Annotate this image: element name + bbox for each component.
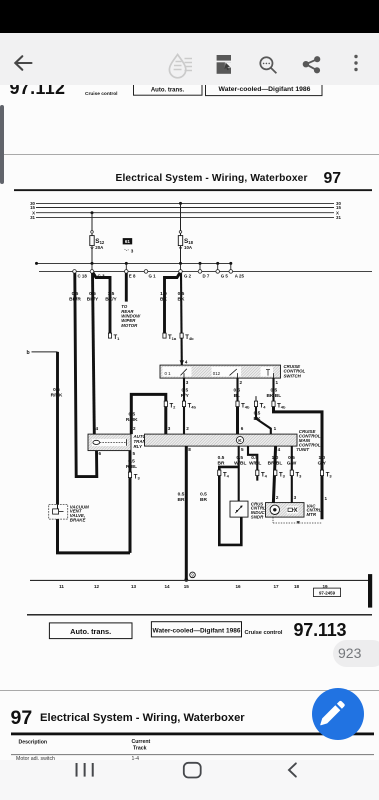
connector T4 on W/BL stub xyxy=(256,470,259,476)
inductive sender label xyxy=(251,502,266,520)
ground rail xyxy=(30,580,372,582)
connector G1 xyxy=(144,270,148,274)
svg-text:b: b xyxy=(27,350,30,356)
svg-text:0.5: 0.5 xyxy=(218,455,225,461)
connector C18 xyxy=(73,270,77,274)
terminal circle above S12 xyxy=(91,231,94,234)
svg-text:15: 15 xyxy=(184,584,190,589)
scrollbar xyxy=(0,105,4,184)
connector T4b upper xyxy=(180,333,183,338)
svg-text:W/BL: W/BL xyxy=(234,461,246,467)
switch pin 4 label xyxy=(180,361,184,366)
svg-text:4: 4 xyxy=(96,426,99,431)
wire 0.5 W/BL stub via T4 xyxy=(248,446,257,481)
svg-text:G/W: G/W xyxy=(287,461,297,467)
svg-text:T1: T1 xyxy=(114,335,121,341)
cruise control main control unit box xyxy=(145,434,298,446)
connector T4b on BK/BL xyxy=(272,401,275,407)
svg-text:T2: T2 xyxy=(170,404,177,410)
svg-text:0.5: 0.5 xyxy=(181,388,188,394)
wire 0.5 BK/BL switch pin1 to T4b then to G/Y run xyxy=(272,378,274,403)
svg-text:31: 31 xyxy=(336,216,341,221)
toolbar xyxy=(0,33,379,85)
svg-text:BK/Y: BK/Y xyxy=(87,297,99,303)
connector T3 on G/Y xyxy=(320,470,323,476)
connector E8 xyxy=(125,270,129,274)
svg-text:1.0: 1.0 xyxy=(272,455,279,461)
svg-text:0 1: 0 1 xyxy=(165,371,172,376)
ink annotation icon (disabled) xyxy=(169,55,192,78)
svg-text:3: 3 xyxy=(294,496,297,501)
svg-text:R/BL: R/BL xyxy=(126,464,137,470)
wire 1.0 BR/BL control unit pin4 to vac motor xyxy=(273,446,275,503)
auto trans relay box xyxy=(88,434,131,451)
junction feed/G5 xyxy=(216,262,219,265)
svg-text:14: 14 xyxy=(164,584,170,589)
svg-text:10A: 10A xyxy=(184,245,193,250)
next page top fragment xyxy=(0,691,379,760)
svg-text:A 25: A 25 xyxy=(235,274,245,279)
wire 0.5 W/BL control unit pin5 to inductive sender xyxy=(238,446,240,501)
svg-text:BR/BL: BR/BL xyxy=(268,461,283,467)
svg-text:97.113: 97.113 xyxy=(294,620,347,640)
svg-text:0.5: 0.5 xyxy=(251,455,258,461)
svg-text:G 1: G 1 xyxy=(149,274,157,279)
stub feed to D7 xyxy=(199,264,201,272)
svg-text:BK/Y: BK/Y xyxy=(105,297,117,303)
svg-text:K: K xyxy=(238,439,242,445)
svg-text:Electrical System - Wiring, Wa: Electrical System - Wiring, Waterboxer xyxy=(116,173,308,184)
svg-text:2: 2 xyxy=(276,496,279,501)
svg-text:G/Y: G/Y xyxy=(318,461,327,467)
svg-text:0.5: 0.5 xyxy=(236,455,243,461)
svg-text:T4: T4 xyxy=(261,473,268,479)
auto trans relay label xyxy=(133,435,149,450)
svg-text:W/BL: W/BL xyxy=(249,461,261,467)
wire 0.5 G/W control unit pin7 to vac motor xyxy=(291,446,293,503)
pencil xyxy=(320,700,344,724)
svg-text:0.5: 0.5 xyxy=(200,492,207,498)
wire bus X to fuse S12 xyxy=(91,213,93,264)
svg-text:1.0: 1.0 xyxy=(160,291,167,297)
cruise control switch box xyxy=(160,365,281,378)
svg-text:97-2459: 97-2459 xyxy=(319,591,336,596)
stub feed to A25 xyxy=(230,264,232,272)
wire 0.5 BK/Y from G3 to relay xyxy=(93,273,95,434)
cruise control inductive sender box xyxy=(230,501,248,517)
svg-text:Cruise control: Cruise control xyxy=(245,630,283,636)
share icon xyxy=(303,57,320,73)
svg-text:BR: BR xyxy=(178,497,185,503)
svg-text:3: 3 xyxy=(131,249,134,254)
svg-text:11: 11 xyxy=(59,584,64,589)
vacuum vent valve box xyxy=(49,505,68,519)
svg-text:BK: BK xyxy=(254,416,261,422)
svg-text:T4: T4 xyxy=(223,473,230,479)
page edge mark xyxy=(368,574,372,608)
svg-text:Current: Current xyxy=(132,739,151,745)
svg-text:G 5: G 5 xyxy=(221,274,229,279)
svg-text:1: 1 xyxy=(325,497,328,502)
svg-text:7: 7 xyxy=(296,448,299,453)
svg-text:T3: T3 xyxy=(296,473,303,479)
wire 0.5 R/Y switch pin3 to T4b to control unit pin 2 xyxy=(183,378,185,434)
connector T4 stub xyxy=(255,396,257,401)
svg-text:BR: BR xyxy=(200,497,207,503)
junction S18/feed xyxy=(179,262,182,265)
svg-text:SWITCH: SWITCH xyxy=(284,374,302,379)
svg-text:0.5: 0.5 xyxy=(178,291,185,297)
svg-text:4: 4 xyxy=(185,360,188,365)
svg-text:Auto. trans.: Auto. trans. xyxy=(151,88,185,94)
svg-text:BRAKE: BRAKE xyxy=(70,518,87,523)
svg-text:97: 97 xyxy=(324,170,342,187)
connector T3 on BR/BL xyxy=(274,470,277,476)
page header title xyxy=(116,170,342,187)
svg-text:0.5: 0.5 xyxy=(72,291,79,297)
fuse S12 20A xyxy=(90,236,94,246)
cruise control switch label xyxy=(284,364,306,379)
svg-text:97.112: 97.112 xyxy=(10,85,66,98)
bus X xyxy=(36,212,334,214)
home button xyxy=(184,763,201,778)
diagram number box 97-2459 xyxy=(314,588,341,597)
feed line from fuses xyxy=(37,263,231,265)
vacuum control motor box xyxy=(266,503,305,517)
connector G2 xyxy=(179,270,183,274)
svg-text:Water-cooled—Digifant 1986: Water-cooled—Digifant 1986 xyxy=(153,628,241,635)
svg-text:0.5: 0.5 xyxy=(128,459,135,465)
wire 1.0 BK from G2 to T1a xyxy=(165,273,181,333)
svg-text:BK: BK xyxy=(178,297,185,303)
connector T1a xyxy=(163,333,166,338)
junction S12/feed xyxy=(91,262,94,265)
svg-text:3: 3 xyxy=(168,426,171,431)
connector T4 on BR loop xyxy=(218,470,221,476)
stub feed to G5 xyxy=(217,264,219,272)
svg-text:BR: BR xyxy=(218,461,225,467)
page reflow icon xyxy=(217,55,231,74)
footer box water-cooled xyxy=(151,622,241,637)
svg-text:0.5: 0.5 xyxy=(89,291,96,297)
svg-text:MTR: MTR xyxy=(307,512,317,517)
junction on bus X xyxy=(91,212,94,215)
svg-text:6: 6 xyxy=(99,452,102,457)
svg-text:61: 61 xyxy=(125,240,131,245)
connector T4b on R/Y xyxy=(182,401,185,407)
recents button xyxy=(76,763,94,777)
svg-text:31: 31 xyxy=(30,216,35,221)
svg-text:13: 13 xyxy=(131,584,137,589)
svg-text:5: 5 xyxy=(241,448,244,453)
page number chip xyxy=(333,640,379,668)
svg-text:BK/R: BK/R xyxy=(69,297,81,303)
connector T2 xyxy=(164,401,167,407)
svg-text:T4: T4 xyxy=(260,404,267,410)
svg-text:Description: Description xyxy=(19,740,48,746)
connector T1 xyxy=(108,333,111,338)
svg-text:0.5: 0.5 xyxy=(128,412,135,418)
svg-text:5: 5 xyxy=(133,452,136,457)
cruise control main control unit label xyxy=(299,429,322,452)
wire 0.5 BR control unit pin8 to ground rail xyxy=(185,446,188,580)
svg-text:1: 1 xyxy=(276,380,279,385)
bus labels left xyxy=(30,201,35,220)
svg-text:D 7: D 7 xyxy=(203,274,210,279)
svg-text:3: 3 xyxy=(186,380,189,385)
svg-text:BK/BL: BK/BL xyxy=(266,393,281,399)
status bar xyxy=(0,0,379,33)
page separator 2 xyxy=(0,690,379,692)
svg-text:BL: BL xyxy=(234,393,240,399)
mechanical linkage dashes xyxy=(273,517,322,523)
wire 1.5 BK/Y from G3 to T1 xyxy=(93,273,110,333)
svg-text:0.5: 0.5 xyxy=(178,492,185,498)
svg-text:BK: BK xyxy=(160,297,167,303)
svg-text:2: 2 xyxy=(133,426,136,431)
junction on bus 30 xyxy=(179,202,182,205)
back button xyxy=(289,764,296,777)
svg-text:T4b: T4b xyxy=(241,404,250,410)
wire 0.5 R/BK from b to vacuum vent valve xyxy=(56,352,59,505)
svg-text:RLY: RLY xyxy=(134,444,144,449)
connector T3 on R/BL xyxy=(128,472,131,478)
connector D7 xyxy=(198,270,202,274)
wire 0.5 BK from G2 through T4b to switch pin 4 xyxy=(180,273,183,365)
svg-text:E 8: E 8 xyxy=(129,274,136,279)
wire 0.5 BK/R from C18 xyxy=(75,273,97,477)
stub S18 to G2 xyxy=(180,264,182,272)
svg-text:0.5: 0.5 xyxy=(288,455,295,461)
svg-text:16: 16 xyxy=(235,584,241,589)
svg-text:Water-cooled—Digifant 1986: Water-cooled—Digifant 1986 xyxy=(219,86,311,93)
vacuum vent valve label xyxy=(70,505,89,523)
svg-text:MOTOR: MOTOR xyxy=(121,323,138,328)
svg-text:97: 97 xyxy=(11,707,33,729)
svg-text:2: 2 xyxy=(240,380,243,385)
svg-text:1.0: 1.0 xyxy=(318,455,325,461)
svg-text:12: 12 xyxy=(94,584,100,589)
svg-text:R/BK: R/BK xyxy=(51,393,63,399)
svg-text:17: 17 xyxy=(273,584,279,589)
connector T4b on BL xyxy=(236,401,239,407)
overflow menu icon xyxy=(354,55,357,71)
bus 30 xyxy=(36,203,334,205)
previous page bottom fragment xyxy=(0,85,379,154)
svg-text:Track: Track xyxy=(133,746,147,752)
connector T3 on G/W xyxy=(290,470,293,476)
svg-text:T1a: T1a xyxy=(168,335,177,341)
svg-text:UNIT: UNIT xyxy=(299,447,310,452)
svg-text:20A: 20A xyxy=(95,245,104,250)
stub feed to E8 xyxy=(125,264,127,272)
footer rule xyxy=(27,614,372,615)
header rule xyxy=(14,190,372,192)
bus labels right xyxy=(336,201,341,220)
fuse S18 10A xyxy=(178,236,182,246)
junction feed/E8 xyxy=(125,262,128,265)
svg-text:SNDR: SNDR xyxy=(251,515,264,520)
svg-text:012: 012 xyxy=(213,371,221,376)
svg-text:C 18: C 18 xyxy=(78,274,88,279)
track numbers xyxy=(59,584,328,589)
svg-text:R/Y: R/Y xyxy=(181,393,190,399)
svg-text:T3: T3 xyxy=(134,475,141,481)
stub S12 to G3 xyxy=(91,264,93,272)
svg-text:T4b: T4b xyxy=(188,404,197,410)
svg-text:T4b: T4b xyxy=(185,335,194,341)
svg-text:Auto. trans.: Auto. trans. xyxy=(70,627,111,636)
svg-text:G 2: G 2 xyxy=(184,274,192,279)
relay plate position box 61 xyxy=(123,238,133,244)
main diagram page 97.113 xyxy=(0,155,379,689)
footer box auto trans xyxy=(49,623,132,639)
connector A25 xyxy=(229,270,233,274)
connector G3 xyxy=(90,270,94,274)
svg-text:18: 18 xyxy=(294,584,300,589)
page separator 1 xyxy=(0,154,379,155)
svg-text:0.5: 0.5 xyxy=(53,387,60,393)
svg-text:2: 2 xyxy=(186,426,189,431)
wire 0.5 BK T4 to control unit pin 1 xyxy=(256,407,271,435)
svg-text:Cruise control: Cruise control xyxy=(85,91,118,97)
back arrow xyxy=(15,56,31,70)
svg-text:6: 6 xyxy=(241,426,244,431)
wire 0.5 BR sender loop via T4 xyxy=(219,467,241,545)
connector G5 xyxy=(216,270,220,274)
svg-text:T3: T3 xyxy=(326,473,333,479)
svg-text:0.5: 0.5 xyxy=(233,388,240,394)
wire to rear window wiper motor from E8 xyxy=(125,273,128,302)
svg-text:1.5: 1.5 xyxy=(108,291,115,297)
bus 31 xyxy=(36,217,334,219)
terminal circle above S18 xyxy=(179,231,182,234)
FAB edit button xyxy=(311,687,365,741)
wire 0.5 R/BL relay pin5 via T3 down xyxy=(129,451,132,553)
thick U wire control unit pin3 via T2 to relay pin2 xyxy=(131,395,166,435)
svg-text:0.5: 0.5 xyxy=(254,411,261,417)
search icon xyxy=(260,57,276,73)
vac control motor label xyxy=(307,504,322,518)
connector strip line xyxy=(39,271,372,273)
svg-text:T3: T3 xyxy=(279,473,286,479)
wire bus 30 to fuse S18 xyxy=(180,204,182,264)
svg-text:Electrical System - Wiring, Wa: Electrical System - Wiring, Waterboxer xyxy=(40,712,245,724)
svg-text:1: 1 xyxy=(274,426,277,431)
feed line terminal dot xyxy=(35,262,38,265)
wire 0.5 BL switch pin2 to T4b to control unit pin 6 xyxy=(236,378,238,407)
bottom navigation bar xyxy=(0,760,379,800)
svg-text:T4b: T4b xyxy=(277,404,286,410)
junction feed/D7 xyxy=(199,262,202,265)
wire valve to relay pin5 run xyxy=(58,519,131,553)
svg-text:0.5: 0.5 xyxy=(270,388,277,394)
bus 15 xyxy=(36,207,334,209)
svg-text:8: 8 xyxy=(188,448,191,453)
ground symbol 9 xyxy=(190,572,196,578)
svg-text:4: 4 xyxy=(278,448,281,453)
junction feed/A25 xyxy=(229,262,232,265)
svg-text:R/BK: R/BK xyxy=(126,417,138,423)
